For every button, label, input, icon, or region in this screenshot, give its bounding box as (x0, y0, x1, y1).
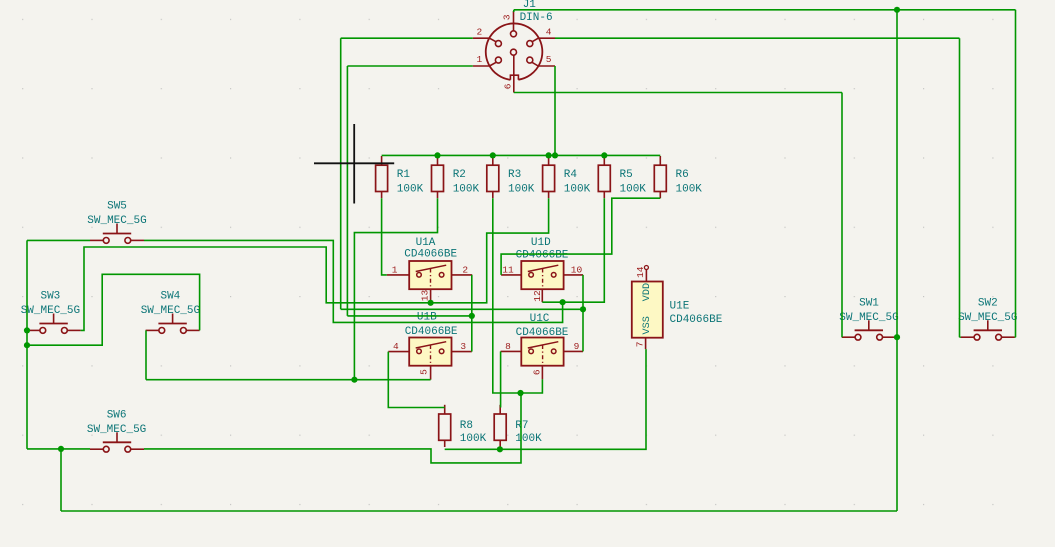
svg-text:R1: R1 (397, 169, 411, 181)
svg-text:2: 2 (477, 26, 483, 37)
svg-text:U1E: U1E (670, 300, 690, 312)
svg-text:100K: 100K (676, 183, 703, 195)
svg-text:SW_MEC_5G: SW_MEC_5G (87, 424, 146, 436)
svg-text:R3: R3 (508, 169, 521, 181)
svg-text:100K: 100K (508, 183, 535, 195)
svg-text:R5: R5 (620, 169, 633, 181)
svg-text:6: 6 (531, 369, 542, 375)
svg-text:1: 1 (392, 264, 398, 275)
svg-text:SW_MEC_5G: SW_MEC_5G (141, 305, 200, 317)
svg-text:CD4066BE: CD4066BE (404, 248, 457, 260)
svg-text:SW2: SW2 (978, 297, 998, 309)
svg-text:5: 5 (546, 54, 552, 65)
svg-text:100K: 100K (564, 183, 591, 195)
svg-text:SW6: SW6 (107, 409, 127, 421)
svg-text:100K: 100K (515, 433, 542, 445)
svg-text:VDD: VDD (642, 283, 653, 301)
svg-text:3: 3 (460, 341, 466, 352)
svg-text:9: 9 (574, 341, 580, 352)
svg-text:100K: 100K (397, 183, 424, 195)
svg-text:R6: R6 (676, 169, 689, 181)
svg-text:4: 4 (546, 26, 552, 37)
svg-text:SW3: SW3 (40, 291, 60, 303)
svg-text:CD4066BE: CD4066BE (670, 314, 723, 326)
svg-text:U1D: U1D (531, 237, 551, 249)
svg-text:R4: R4 (564, 169, 578, 181)
svg-text:U1A: U1A (416, 237, 436, 249)
svg-text:R8: R8 (460, 420, 473, 432)
svg-text:SW_MEC_5G: SW_MEC_5G (839, 312, 898, 324)
svg-text:1: 1 (477, 54, 483, 65)
svg-text:SW5: SW5 (107, 201, 127, 213)
svg-text:10: 10 (571, 264, 583, 275)
svg-text:SW_MEC_5G: SW_MEC_5G (958, 312, 1017, 324)
svg-text:CD4066BE: CD4066BE (516, 250, 569, 262)
svg-text:5: 5 (418, 369, 429, 375)
svg-text:DIN-6: DIN-6 (520, 12, 553, 24)
svg-text:100K: 100K (620, 183, 647, 195)
svg-text:R7: R7 (515, 420, 528, 432)
svg-text:VSS: VSS (642, 316, 653, 334)
svg-text:SW4: SW4 (160, 291, 180, 303)
svg-text:SW_MEC_5G: SW_MEC_5G (21, 305, 80, 317)
svg-text:CD4066BE: CD4066BE (516, 327, 569, 339)
svg-text:7: 7 (635, 342, 646, 348)
svg-text:6: 6 (503, 83, 514, 89)
svg-text:13: 13 (420, 290, 431, 302)
svg-text:2: 2 (462, 264, 468, 275)
svg-text:11: 11 (502, 264, 514, 275)
svg-text:SW1: SW1 (859, 297, 879, 309)
svg-text:4: 4 (393, 341, 399, 352)
svg-text:12: 12 (532, 290, 543, 302)
svg-text:100K: 100K (453, 183, 480, 195)
svg-text:3: 3 (501, 14, 512, 20)
svg-text:R2: R2 (453, 169, 466, 181)
svg-text:CD4066BE: CD4066BE (405, 326, 458, 338)
svg-text:SW_MEC_5G: SW_MEC_5G (87, 215, 146, 227)
svg-text:14: 14 (635, 266, 646, 278)
svg-text:8: 8 (505, 341, 511, 352)
svg-text:100K: 100K (460, 433, 487, 445)
